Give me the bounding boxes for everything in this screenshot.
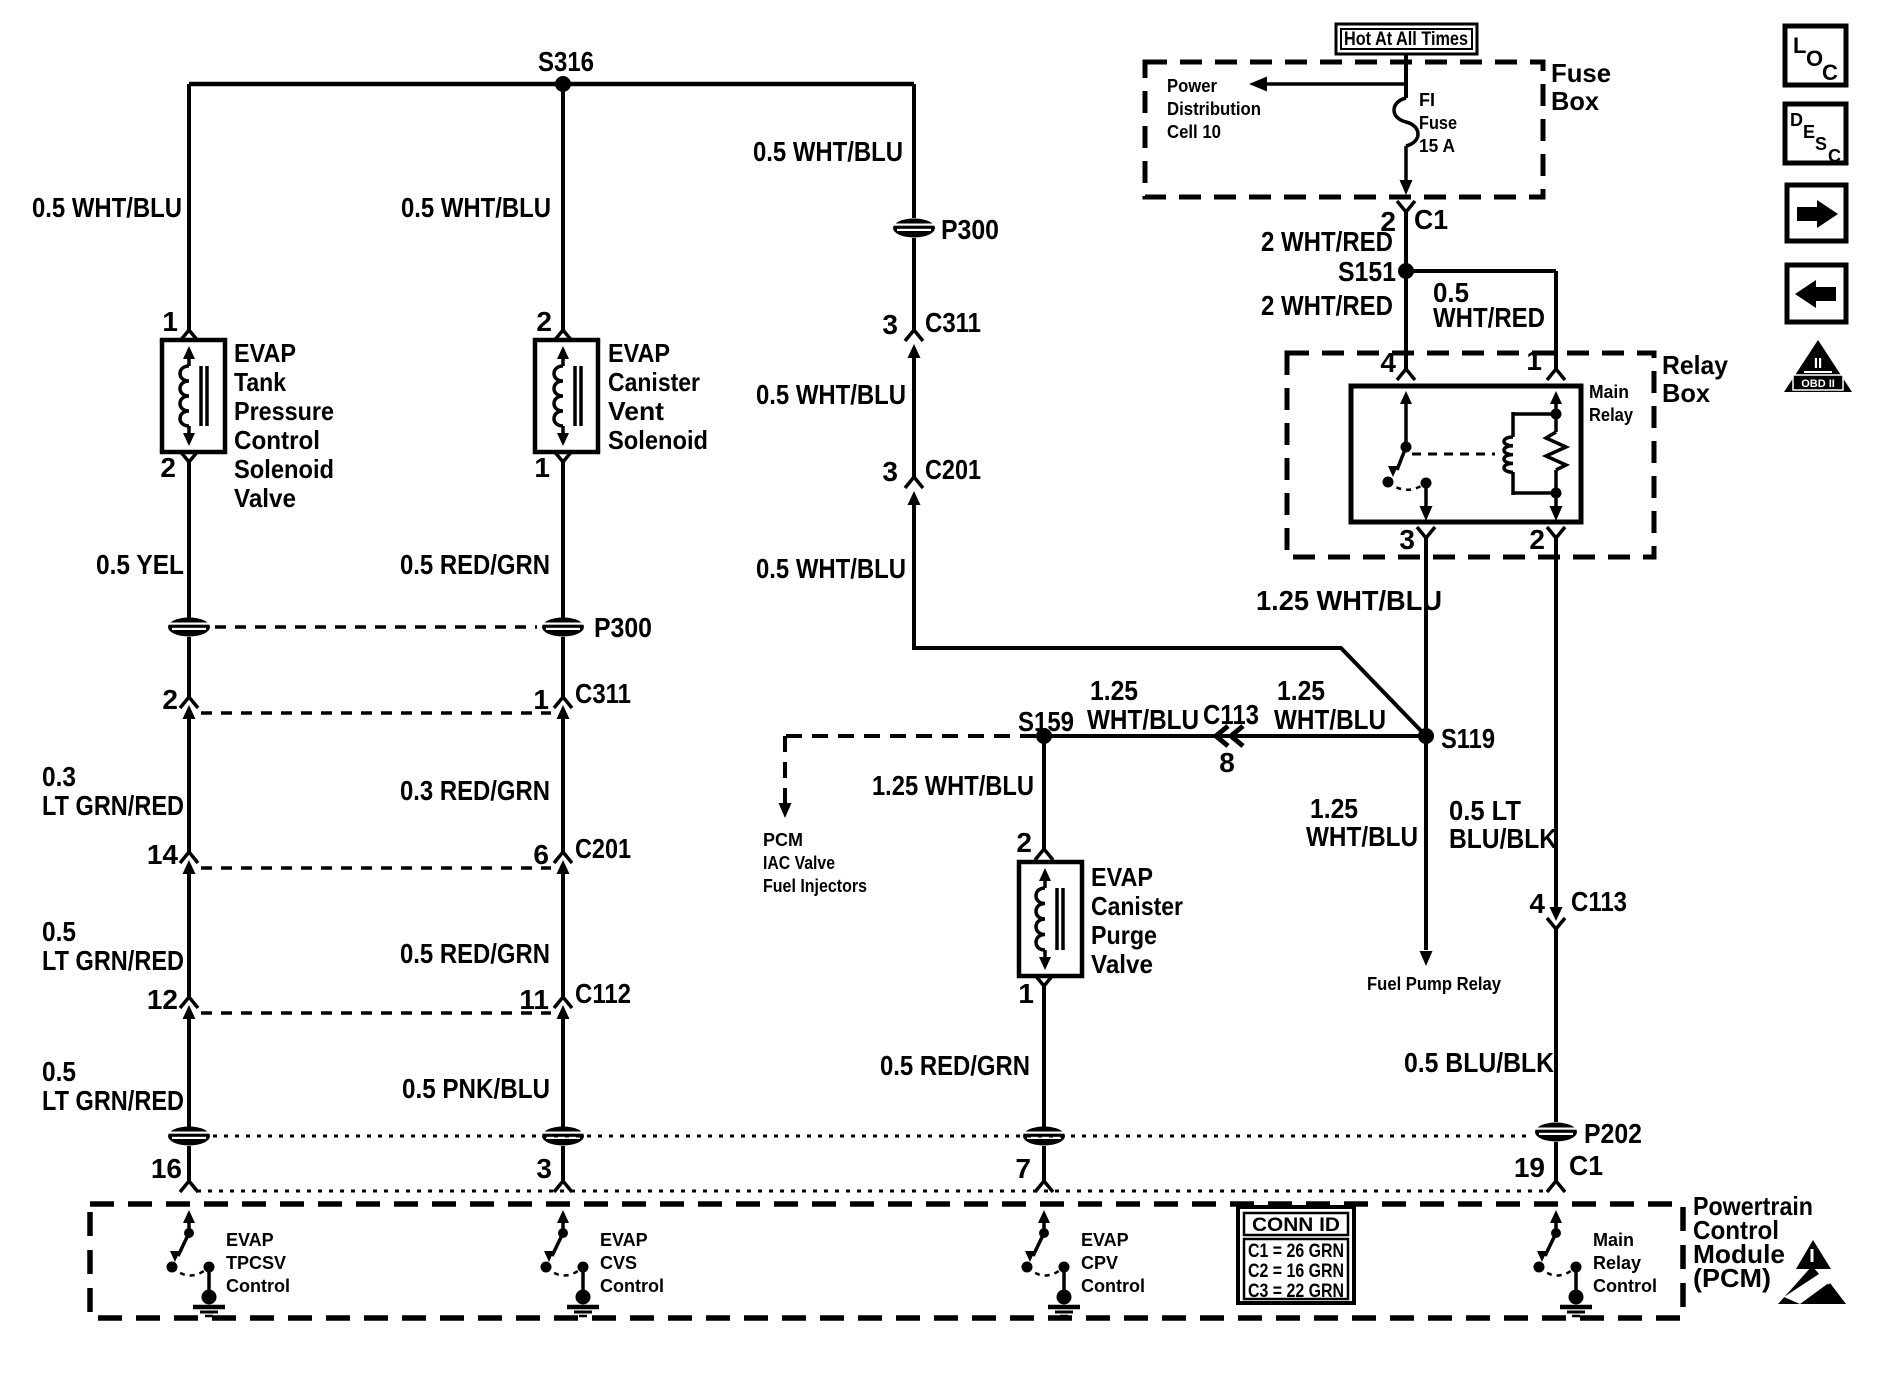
switch coil link (dashed)	[1539, 1267, 1576, 1276]
svg-text:P202: P202	[1584, 1118, 1642, 1149]
wire: grommet to PCM pin 7	[1042, 1146, 1046, 1181]
icon DESC	[1785, 104, 1846, 163]
ground	[1057, 1290, 1072, 1305]
connector female at relay pin 3	[1417, 527, 1435, 538]
wire: C201 to C112 (0.5 LT GRN/RED)	[187, 874, 191, 997]
dashed link P300 grommets	[215, 625, 537, 629]
connector C201 inline (col A)	[180, 852, 198, 863]
svg-text:WHT/BLU: WHT/BLU	[1274, 704, 1386, 735]
svg-text:C1: C1	[1569, 1150, 1603, 1181]
svg-text:Hot At All Times: Hot At All Times	[1344, 29, 1468, 50]
warning triangle icon	[1796, 1240, 1831, 1269]
wire: pin 1 down to P202 grommet (0.5 RED/GRN)	[1042, 986, 1046, 1127]
svg-text:Control: Control	[1081, 1276, 1145, 1296]
svg-text:Control: Control	[1593, 1276, 1657, 1296]
wire: P202 to PCM pin 19	[1554, 1142, 1558, 1181]
svg-text:Fuel Injectors: Fuel Injectors	[763, 876, 867, 896]
svg-text:0.5 WHT/BLU: 0.5 WHT/BLU	[401, 192, 551, 223]
svg-text:Pressure: Pressure	[234, 396, 334, 426]
svg-text:0.5 WHT/BLU: 0.5 WHT/BLU	[756, 379, 906, 410]
relay actuate dashed link	[1412, 453, 1495, 456]
icon arrow right	[1787, 185, 1846, 241]
wire: pin 1 down to P300 (0.5 RED/GRN)	[561, 462, 565, 618]
switch solenoid stem	[578, 1262, 589, 1273]
connector female at CVS pin 2	[554, 330, 572, 341]
wire: fuse output	[1404, 146, 1408, 180]
svg-text:2: 2	[1529, 524, 1545, 555]
svg-text:Distribution: Distribution	[1167, 99, 1261, 119]
svg-text:1: 1	[533, 684, 549, 715]
relay resistor	[1546, 432, 1566, 470]
svg-text:E: E	[1803, 122, 1815, 142]
wire: C201 down, over and diagonal to S119 (0.5 WHT/BLU)	[912, 497, 916, 650]
svg-text:1.25: 1.25	[1090, 675, 1138, 706]
grommet P300 (col B)	[542, 618, 584, 637]
svg-text:Vent: Vent	[608, 396, 664, 426]
grommet (P202 row, purge col)	[1023, 1127, 1065, 1146]
svg-text:2: 2	[160, 452, 176, 483]
relay output contact to pin 3	[1421, 478, 1432, 489]
svg-text:Relay: Relay	[1589, 405, 1633, 425]
svg-text:19: 19	[1514, 1152, 1545, 1183]
wire: relay pin 2 down to C113 (0.5 LT BLU/BLK)	[1554, 538, 1558, 907]
svg-text:S316: S316	[538, 46, 594, 77]
svg-text:C2 = 16 GRN: C2 = 16 GRN	[1248, 1261, 1344, 1282]
svg-text:S: S	[1815, 134, 1827, 154]
icon OBD II triangle	[1784, 340, 1852, 392]
svg-text:Valve: Valve	[234, 483, 296, 513]
svg-text:15 A: 15 A	[1419, 136, 1455, 156]
connector female at relay pin 4	[1397, 369, 1415, 380]
wire: power distribution feed arrow	[1262, 82, 1406, 86]
svg-text:WHT/RED: WHT/RED	[1433, 302, 1545, 333]
connector female at PCM pin 3	[554, 1181, 572, 1192]
solenoid valve: EVAP Canister Purge Valve	[1019, 862, 1082, 976]
wire: S119 down to Fuel Pump Relay (1.25 WHT/BLU)	[1424, 736, 1428, 950]
svg-text:Control: Control	[234, 425, 320, 455]
svg-text:CVS: CVS	[600, 1253, 637, 1273]
svg-text:PCM: PCM	[763, 830, 803, 850]
svg-text:12: 12	[147, 984, 178, 1015]
svg-text:0.5: 0.5	[42, 916, 76, 947]
dashed wire: S159 to PCM IAC Valve Fuel Injectors	[785, 734, 1036, 738]
svg-text:(PCM): (PCM)	[1693, 1263, 1771, 1293]
svg-text:Relay: Relay	[1662, 350, 1729, 380]
wire: P300 to C311	[187, 637, 191, 697]
svg-text:D: D	[1790, 110, 1803, 130]
svg-text:EVAP: EVAP	[600, 1230, 648, 1250]
svg-text:0.5 YEL: 0.5 YEL	[96, 549, 184, 580]
wire: C113 to P202 (0.5 BLU/BLK)	[1554, 929, 1558, 1122]
svg-text:1.25: 1.25	[1310, 793, 1358, 824]
svg-text:0.5 WHT/BLU: 0.5 WHT/BLU	[756, 553, 906, 584]
svg-text:0.5 LT: 0.5 LT	[1449, 795, 1521, 826]
svg-text:3: 3	[536, 1153, 552, 1184]
wire: grommet to PCM pin 16	[187, 1146, 191, 1181]
svg-text:C1 = 26 GRN: C1 = 26 GRN	[1248, 1241, 1344, 1262]
svg-text:1: 1	[1018, 978, 1034, 1009]
wire: C201 to C112 (0.5 RED/GRN)	[561, 874, 565, 997]
connector C311 inline (col B)	[554, 697, 572, 708]
svg-text:C: C	[1828, 146, 1841, 166]
connector C112 inline (col B)	[554, 997, 572, 1008]
svg-text:II: II	[1814, 355, 1822, 372]
svg-text:2: 2	[536, 306, 552, 337]
svg-text:EVAP: EVAP	[226, 1230, 274, 1250]
wire: C112 to P202 grommet (0.5 LT GRN/RED)	[187, 1019, 191, 1127]
svg-text:IAC Valve: IAC Valve	[763, 853, 835, 873]
switch arm	[1545, 1233, 1556, 1256]
svg-text:C3 = 22 GRN: C3 = 22 GRN	[1248, 1281, 1344, 1302]
svg-text:Valve: Valve	[1091, 949, 1153, 979]
svg-text:C1: C1	[1414, 204, 1448, 235]
wire: P300 to C311	[912, 238, 916, 330]
wire: C311 to C201 (0.3 RED/GRN)	[561, 719, 565, 852]
svg-text:2 WHT/RED: 2 WHT/RED	[1261, 226, 1393, 257]
svg-text:C201: C201	[925, 454, 981, 485]
connector C113 (col E) male down into female	[1550, 907, 1563, 921]
switch contact arrow (EVAP TPCSV)	[183, 1210, 195, 1223]
label box: Hot At All Times	[1336, 24, 1477, 54]
svg-text:C201: C201	[575, 833, 631, 864]
connector female at PCM pin 16	[180, 1181, 198, 1192]
connector female at relay pin 1	[1547, 369, 1565, 380]
icon LOC	[1785, 26, 1846, 85]
wire: C311 to C201 (0.3 LT GRN/RED)	[187, 719, 191, 852]
grommet P300 (left)	[168, 618, 210, 637]
svg-text:2: 2	[1016, 827, 1032, 858]
connector C201 (col C)	[905, 477, 923, 488]
svg-text:CONN ID: CONN ID	[1252, 1215, 1340, 1236]
svg-text:C311: C311	[575, 678, 631, 709]
wire: S159 to S119 (1.25 WHT/BLU via C113)	[1044, 734, 1426, 738]
ground	[576, 1290, 591, 1305]
svg-text:1.25 WHT/BLU: 1.25 WHT/BLU	[1256, 585, 1442, 616]
connector female at purge valve pin 2	[1035, 849, 1053, 860]
solenoid valve: EVAP Canister Vent Solenoid	[535, 340, 598, 452]
svg-text:EVAP: EVAP	[1081, 1230, 1129, 1250]
svg-text:Main: Main	[1593, 1230, 1634, 1250]
wire: C1 to S151 (2 WHT/RED)	[1404, 212, 1408, 369]
switch solenoid stem	[1571, 1262, 1582, 1273]
grommet P202	[1535, 1123, 1577, 1142]
svg-text:P300: P300	[594, 612, 652, 643]
icon arrow left	[1787, 265, 1846, 322]
svg-text:Solenoid: Solenoid	[234, 454, 334, 484]
svg-text:0.3 RED/GRN: 0.3 RED/GRN	[400, 775, 550, 806]
svg-text:2 WHT/RED: 2 WHT/RED	[1261, 290, 1393, 321]
svg-text:4: 4	[1529, 888, 1545, 919]
dashed link C201	[201, 866, 551, 870]
switch contact arrow (EVAP CVS)	[557, 1210, 569, 1223]
svg-text:1: 1	[534, 452, 550, 483]
wire: S159 down to purge valve pin 2 (1.25 WHT/BLU)	[1042, 736, 1046, 849]
svg-text:WHT/BLU: WHT/BLU	[1306, 821, 1418, 852]
wire: pin 2 down to P300 (0.5 YEL)	[187, 462, 191, 618]
svg-text:Box: Box	[1662, 378, 1711, 408]
svg-text:Fuse: Fuse	[1551, 58, 1611, 88]
svg-text:FI: FI	[1419, 90, 1435, 110]
grommet P300 (col C)	[893, 219, 935, 238]
ground	[202, 1290, 217, 1305]
wire: top bus down to P300 (0.5 WHT/BLU)	[912, 84, 916, 218]
CONN ID table	[1238, 1207, 1354, 1303]
wire: P300 to C311	[561, 637, 565, 697]
connector C1 female below fuse box	[1397, 201, 1415, 212]
connector female at PCM pin 7	[1035, 1181, 1053, 1192]
svg-text:Power: Power	[1167, 76, 1217, 96]
wire: grommet to PCM pin 3	[561, 1146, 565, 1181]
svg-text:0.5 RED/GRN: 0.5 RED/GRN	[400, 938, 550, 969]
relay coil branch from pin 1	[1550, 391, 1562, 404]
svg-text:S119: S119	[1441, 723, 1495, 754]
grommet (P202 row, col A)	[168, 1127, 210, 1146]
main relay body	[1351, 386, 1581, 522]
connector female at PCM pin 19	[1547, 1181, 1565, 1192]
wire: relay pin 3 down to S119 (1.25 WHT/BLU)	[1424, 538, 1428, 736]
svg-text:1.25: 1.25	[1277, 675, 1325, 706]
svg-text:14: 14	[147, 839, 179, 870]
svg-text:3: 3	[882, 456, 898, 487]
switch arm	[552, 1233, 563, 1256]
dashed link C311	[201, 711, 551, 715]
svg-text:Solenoid: Solenoid	[608, 425, 708, 455]
svg-text:0.5 WHT/BLU: 0.5 WHT/BLU	[32, 192, 182, 223]
svg-text:WHT/BLU: WHT/BLU	[1087, 704, 1199, 735]
svg-text:0.5 BLU/BLK: 0.5 BLU/BLK	[1404, 1047, 1554, 1078]
svg-text:Canister: Canister	[608, 367, 700, 397]
svg-text:S151: S151	[1338, 256, 1396, 287]
svg-text:0.5 WHT/BLU: 0.5 WHT/BLU	[753, 136, 903, 167]
relay switch link (dashed arc)	[1388, 482, 1426, 490]
switch coil link (dashed)	[546, 1267, 583, 1276]
connector C311 inline (col A)	[180, 697, 198, 708]
dashed link C112	[201, 1011, 551, 1015]
PCM box (dashed)	[90, 1204, 1683, 1318]
svg-text:Control: Control	[600, 1276, 664, 1296]
svg-text:6: 6	[533, 839, 549, 870]
svg-text:0.3: 0.3	[42, 761, 76, 792]
switch solenoid stem	[204, 1262, 215, 1273]
svg-text:EVAP: EVAP	[608, 338, 670, 368]
switch arm	[178, 1233, 189, 1256]
svg-text:Tank: Tank	[234, 367, 286, 397]
wire: top bus from col A to col C	[189, 82, 914, 87]
connector female at CVS pin 1	[554, 451, 572, 462]
svg-text:C113: C113	[1203, 699, 1259, 730]
svg-text:7: 7	[1015, 1153, 1031, 1184]
svg-text:BLU/BLK: BLU/BLK	[1449, 823, 1557, 854]
relay box (dashed)	[1287, 353, 1654, 557]
connector female at solenoid pin 2	[180, 451, 198, 462]
svg-text:LT GRN/RED: LT GRN/RED	[42, 1085, 184, 1116]
svg-text:C311: C311	[925, 307, 981, 338]
svg-text:Main: Main	[1589, 382, 1629, 402]
svg-text:Fuse: Fuse	[1419, 113, 1457, 133]
node S316	[555, 76, 571, 92]
connector C201 inline (col B)	[554, 852, 572, 863]
svg-text:0.5: 0.5	[42, 1056, 76, 1087]
connector female at purge valve pin 1	[1035, 975, 1053, 986]
switch solenoid stem	[1059, 1262, 1070, 1273]
svg-text:LT GRN/RED: LT GRN/RED	[42, 790, 184, 821]
svg-text:Box: Box	[1551, 86, 1600, 116]
svg-text:Control: Control	[226, 1276, 290, 1296]
connector female at relay pin 2	[1547, 527, 1565, 538]
node S119	[1418, 728, 1434, 744]
dotted PCM header row	[197, 1190, 1548, 1193]
svg-text:0.5 RED/GRN: 0.5 RED/GRN	[400, 549, 550, 580]
switch contact arrow (EVAP CPV)	[1038, 1210, 1050, 1223]
svg-text:1: 1	[162, 306, 178, 337]
svg-text:0.5 RED/GRN: 0.5 RED/GRN	[880, 1050, 1030, 1081]
svg-text:EVAP: EVAP	[1091, 862, 1153, 892]
svg-text:C: C	[1822, 60, 1838, 85]
svg-text:8: 8	[1219, 747, 1235, 778]
svg-text:O: O	[1806, 46, 1823, 71]
svg-text:Purge: Purge	[1091, 920, 1157, 950]
svg-text:L: L	[1793, 33, 1806, 58]
relay coil	[1513, 412, 1556, 416]
svg-text:Relay: Relay	[1593, 1253, 1641, 1273]
connector female at solenoid pin 1	[180, 330, 198, 341]
svg-text:1: 1	[1526, 345, 1542, 376]
svg-text:EVAP: EVAP	[234, 338, 296, 368]
wire: C112 to P202 grommet (0.5 PNK/BLU)	[561, 1019, 565, 1127]
connector C112 inline (col A)	[180, 997, 198, 1008]
svg-text:2: 2	[162, 684, 178, 715]
svg-text:OBD II: OBD II	[1801, 378, 1835, 390]
svg-text:4: 4	[1380, 347, 1396, 378]
wire: S316 bus down to EVAP TPCSV pin 1 (0.5 WHT/BLU)	[187, 84, 191, 330]
ESD triangle icon	[1778, 1266, 1846, 1304]
wire: hot feed into fuse box	[1404, 54, 1408, 98]
svg-text:P300: P300	[941, 214, 999, 245]
svg-text:0.5 PNK/BLU: 0.5 PNK/BLU	[402, 1073, 550, 1104]
ground	[1569, 1290, 1584, 1305]
svg-text:CPV: CPV	[1081, 1253, 1118, 1273]
wire: S316 down to EVAP CVS pin 2 (0.5 WHT/BLU)	[561, 84, 565, 330]
grommet (P202 row, col B)	[542, 1127, 584, 1146]
wire: S151 over to relay pin 1 (0.5 WHT/RED)	[1406, 269, 1556, 273]
svg-text:C113: C113	[1571, 886, 1627, 917]
svg-text:3: 3	[882, 309, 898, 340]
svg-text:LT GRN/RED: LT GRN/RED	[42, 945, 184, 976]
svg-text:Canister: Canister	[1091, 891, 1183, 921]
dotted grommet row P202	[213, 1135, 1532, 1138]
svg-text:TPCSV: TPCSV	[226, 1253, 286, 1273]
switch arm	[1033, 1233, 1044, 1256]
svg-text:C112: C112	[575, 978, 631, 1009]
fuse box (dashed)	[1145, 62, 1543, 197]
svg-text:11: 11	[519, 984, 549, 1015]
svg-text:3: 3	[1399, 524, 1415, 555]
solenoid valve: EVAP Tank Pressure Control Solenoid Valve	[162, 340, 225, 452]
svg-text:1.25 WHT/BLU: 1.25 WHT/BLU	[872, 770, 1034, 801]
svg-text:Cell 10: Cell 10	[1167, 122, 1221, 142]
connector C311 (col C)	[905, 330, 923, 341]
svg-text:Fuel Pump Relay: Fuel Pump Relay	[1367, 974, 1501, 994]
fuse FI Fuse 15 A	[1394, 98, 1418, 146]
switch coil link (dashed)	[1027, 1267, 1064, 1276]
switch contact arrow (Main Relay)	[1550, 1210, 1562, 1223]
wire: C311 to C201 (0.5 WHT/BLU)	[912, 350, 916, 477]
relay switch common arm	[1400, 391, 1412, 404]
svg-text:16: 16	[151, 1153, 182, 1184]
switch coil link (dashed)	[172, 1267, 209, 1276]
connector C113 male (double chevron)	[1216, 726, 1228, 746]
